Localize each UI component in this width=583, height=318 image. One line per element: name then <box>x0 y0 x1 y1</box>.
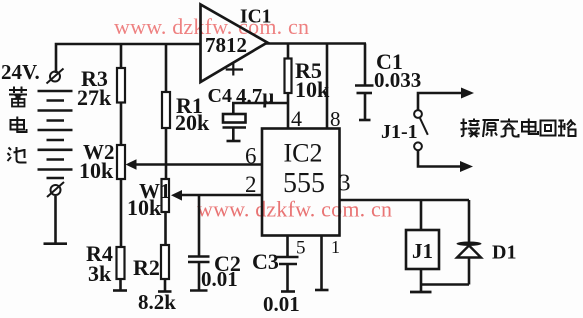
wire R3 to W2 <box>120 103 123 146</box>
potentiometer W1 wiper arrow <box>171 190 182 201</box>
wire R1 to W1 <box>165 128 168 179</box>
svg-text:24V.: 24V. <box>1 60 40 84</box>
svg-text:0.01: 0.01 <box>263 292 300 316</box>
potentiometer W1 <box>162 179 170 212</box>
wire top rail <box>56 44 201 73</box>
timer IC2 box <box>262 129 340 236</box>
hanzi 充 <box>501 119 519 137</box>
battery B plates <box>38 91 73 178</box>
wire C1 bottom <box>364 94 367 120</box>
wire R3 branch upper <box>120 44 123 68</box>
wire switch top lead <box>418 93 463 110</box>
wire R1 branch upper <box>165 44 168 92</box>
wire D1 drop <box>468 200 471 242</box>
ground C3 <box>281 290 295 293</box>
svg-text:20k: 20k <box>175 110 210 135</box>
wire battery bottom lead <box>54 196 57 243</box>
capacitor C2 <box>188 257 210 263</box>
ground IC1 <box>226 64 243 76</box>
ground C1 <box>359 119 371 122</box>
svg-text:4: 4 <box>291 106 302 131</box>
hanzi 回 <box>541 121 556 136</box>
ground battery bottom bar <box>44 242 68 245</box>
wire J1 bottom <box>420 269 423 292</box>
ground R4 <box>113 289 127 292</box>
svg-text:6: 6 <box>245 144 257 169</box>
wire C3 bottom <box>286 265 289 292</box>
svg-text:7812: 7812 <box>205 33 247 57</box>
resistor R5 <box>285 59 292 94</box>
wire output rail <box>266 42 366 45</box>
wire C2 drop <box>198 195 201 256</box>
potentiometer W2 wiper arrow <box>126 159 137 169</box>
diode D1 <box>457 242 482 246</box>
wire pin1 <box>320 236 323 290</box>
svg-text:J1: J1 <box>412 239 433 263</box>
wire C2 bottom <box>198 263 201 291</box>
wire R5 to pin4 <box>287 93 290 129</box>
regulator IC1 triangle <box>201 5 268 83</box>
resistor R4 <box>117 247 125 279</box>
svg-text:C3: C3 <box>252 249 279 274</box>
svg-text:J1-1: J1-1 <box>381 121 418 143</box>
svg-text:27k: 27k <box>77 85 112 110</box>
wire switch bottom lead <box>418 151 463 167</box>
svg-text:IC2: IC2 <box>284 139 323 168</box>
svg-text:IC1: IC1 <box>240 7 271 28</box>
svg-text:D1: D1 <box>492 242 516 264</box>
battery B top terminal circle <box>47 69 64 84</box>
svg-text:10k: 10k <box>127 195 162 220</box>
wire pin3 <box>340 199 470 202</box>
wire W2 to R4 <box>120 179 123 247</box>
wire R2 bottom <box>164 279 167 291</box>
svg-text:5: 5 <box>296 238 306 259</box>
ground pin1 <box>315 289 329 292</box>
ground C2 <box>190 289 208 292</box>
battery B bottom terminal circle <box>47 182 64 197</box>
wire pin8 <box>326 44 329 129</box>
svg-text:8: 8 <box>330 107 341 131</box>
ground J1 <box>410 291 432 294</box>
svg-text:3k: 3k <box>88 261 112 286</box>
svg-text:8.2k: 8.2k <box>138 290 176 314</box>
wire bottom link J1-D1 <box>421 283 469 286</box>
wire pin5 <box>286 236 289 257</box>
wire C4 horizontal <box>233 103 288 114</box>
wire W1 to R2 <box>164 212 167 245</box>
hanzi 接 <box>461 119 481 138</box>
hanzi 原 <box>483 120 500 137</box>
hanzi 电 <box>522 119 538 135</box>
wire J1 drop <box>420 200 423 230</box>
wire R5 top <box>287 44 290 59</box>
hanzi 蓄 (battery label char 1) <box>9 87 27 107</box>
svg-text:0.033: 0.033 <box>374 68 421 92</box>
resistor R2 <box>161 245 169 279</box>
hanzi 电 (battery label char 2) <box>11 117 27 133</box>
hanzi 池 (battery label char 3) <box>8 147 27 163</box>
wire C1 drop <box>364 44 367 86</box>
svg-text:4.7μ: 4.7μ <box>236 84 274 108</box>
wire pin2 from W1 wiper <box>180 194 262 197</box>
ground R2 <box>158 290 172 293</box>
wire pin6 from W2 wiper <box>134 163 262 166</box>
switch J1-1 <box>414 110 428 150</box>
relay coil J1 box <box>406 230 439 269</box>
svg-text:0.01: 0.01 <box>201 267 238 291</box>
capacitor C1 <box>355 86 374 94</box>
wire D1 bottom <box>468 258 471 285</box>
capacitor C3 <box>277 257 299 264</box>
svg-text:555: 555 <box>283 168 325 199</box>
resistor R1 <box>162 92 170 128</box>
svg-text:10k: 10k <box>79 158 114 183</box>
svg-text:3: 3 <box>339 171 351 197</box>
ground C4 bar <box>227 140 241 143</box>
capacitor C4 (electrolytic) <box>223 114 246 123</box>
svg-text:1: 1 <box>331 237 340 257</box>
svg-text:R2: R2 <box>133 255 160 280</box>
potentiometer W2 <box>117 145 125 179</box>
arrow to charger bottom <box>460 161 473 172</box>
arrow to charger top <box>461 88 474 99</box>
wire C4 ground stem <box>232 129 235 141</box>
svg-text:10k: 10k <box>295 77 330 102</box>
svg-text:2: 2 <box>245 172 257 197</box>
wire R4 bottom <box>119 279 122 290</box>
resistor R3 <box>117 68 125 103</box>
hanzi 路 <box>558 120 576 137</box>
svg-text:C4: C4 <box>208 85 232 107</box>
